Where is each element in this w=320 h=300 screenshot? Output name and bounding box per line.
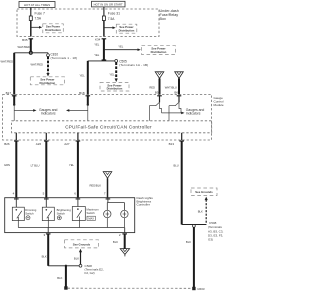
label Gauges and Indicators (left) bbox=[39, 108, 58, 116]
CPU/Fail-Safe Circuit/CAN Controller box bbox=[12, 121, 212, 133]
wire from HOT IN ON OR START to fuse 31 bbox=[103, 7, 105, 16]
svg-text:B26: B26 bbox=[4, 142, 10, 146]
ground point left bbox=[64, 286, 67, 289]
wire BLK to ground G503 bbox=[186, 227, 194, 288]
svg-text:WHT/RED: WHT/RED bbox=[1, 60, 14, 64]
wire YEL to gauge B18 bbox=[80, 61, 88, 95]
svg-text:YEL: YEL bbox=[69, 163, 75, 167]
svg-text:BLU: BLU bbox=[173, 163, 178, 167]
dash lights brightness controller box bbox=[5, 198, 135, 233]
wire BLK from pin 3 bbox=[42, 234, 49, 266]
node junction WHT/RED bbox=[14, 51, 48, 54]
right ground bus bbox=[182, 224, 207, 226]
pin B26 bbox=[4, 140, 18, 145]
svg-text:B35: B35 bbox=[22, 38, 28, 42]
fuse F31 bbox=[102, 12, 120, 21]
wire YEL from K34 down bbox=[94, 39, 104, 61]
svg-text:YEL: YEL bbox=[94, 53, 100, 57]
svg-text:G3): G3) bbox=[208, 238, 213, 242]
svg-text:B18: B18 bbox=[79, 91, 85, 95]
svg-text:WHT/BLU: WHT/BLU bbox=[165, 85, 177, 89]
terminal K34 bbox=[95, 38, 106, 42]
svg-text:Switch: Switch bbox=[25, 211, 34, 215]
pin B13 bbox=[169, 140, 184, 145]
svg-text:7.5A: 7.5A bbox=[35, 16, 42, 20]
See Power Distribution box (fuse 31) bbox=[116, 24, 137, 33]
See Power Distribution box (C810 branch) bbox=[30, 77, 64, 85]
svg-text:Indicators: Indicators bbox=[41, 112, 56, 116]
svg-text:GRN: GRN bbox=[4, 163, 10, 167]
wire fuse 7 to terminal B35 bbox=[30, 21, 32, 37]
arrow to See Power Distribution (fuse 31) bbox=[104, 26, 116, 29]
svg-text:See Grounds: See Grounds bbox=[73, 242, 91, 246]
power label HOT AT ALL TIMES bbox=[19, 2, 55, 8]
svg-text:(Terminals 1A - 1B): (Terminals 1A - 1B) bbox=[119, 63, 148, 67]
pin A27 bbox=[64, 140, 80, 145]
dashed arrow up to See Grounds (right) bbox=[198, 197, 208, 225]
svg-text:YEL: YEL bbox=[80, 73, 86, 77]
svg-text:A26: A26 bbox=[36, 142, 42, 146]
gauge control module outline bbox=[3, 95, 212, 140]
svg-text:WHT/RED: WHT/RED bbox=[17, 45, 30, 49]
wire BLK from pin 2 to ground bbox=[113, 234, 125, 249]
brightening switch SW2 bbox=[42, 198, 71, 221]
svg-text:K34: K34 bbox=[95, 38, 101, 42]
node junction YEL bbox=[88, 59, 115, 61]
left ground bus bbox=[48, 265, 80, 267]
label Under-dash Fuse/Relay Box bbox=[160, 9, 179, 21]
svg-text:YEL: YEL bbox=[94, 42, 100, 46]
wire WHT/RED from B35 to junction bbox=[17, 39, 30, 53]
svg-text:Box: Box bbox=[160, 17, 167, 21]
ground symbol (pin 2) bbox=[120, 249, 129, 257]
fuse F7 bbox=[29, 12, 45, 21]
maximum switch SW3 bbox=[72, 198, 99, 221]
svg-text:WHT/RED: WHT/RED bbox=[30, 62, 43, 66]
arrow to See Power Distribution (fuse 7) bbox=[31, 26, 42, 29]
pin 3 bbox=[44, 233, 51, 237]
svg-text:Switch: Switch bbox=[87, 211, 96, 215]
wire BLU (B13) bbox=[173, 141, 181, 225]
svg-text:HOT AT ALL TIMES: HOT AT ALL TIMES bbox=[24, 3, 50, 7]
transistor Q1 (B5 input) bbox=[149, 95, 161, 121]
svg-text:B17: B17 bbox=[6, 91, 12, 95]
wire YEL C505 to See Power Distribution arrow bbox=[109, 62, 117, 82]
pin 7 bbox=[104, 192, 106, 196]
pin B17 bbox=[6, 91, 17, 96]
svg-text:A27: A27 bbox=[64, 142, 70, 146]
wire LT BLU bbox=[31, 141, 47, 198]
internal ground bus bbox=[18, 218, 124, 233]
terminal forks at controller pins 4,5,6,7 bbox=[14, 198, 110, 199]
svg-text:See Grounds: See Grounds bbox=[195, 190, 213, 194]
See Grounds box (right) bbox=[191, 188, 217, 196]
See Power Distribution box (YEL branch) bbox=[142, 46, 176, 55]
svg-text:F2, G2): F2, G2) bbox=[85, 271, 95, 275]
svg-text:BLK: BLK bbox=[74, 257, 79, 261]
svg-text:4: 4 bbox=[13, 192, 15, 196]
svg-text:5: 5 bbox=[43, 192, 45, 196]
svg-text:G503: G503 bbox=[197, 287, 205, 291]
svg-text:7: 7 bbox=[104, 192, 106, 196]
svg-text:6: 6 bbox=[74, 192, 76, 196]
off-page triangle RED/BLK bbox=[89, 172, 111, 198]
svg-text:Switch: Switch bbox=[57, 211, 66, 215]
connector C508 (right) bbox=[193, 221, 224, 242]
pin 4 bbox=[13, 192, 15, 196]
svg-text:Controller: Controller bbox=[137, 203, 150, 207]
svg-text:Distribution: Distribution bbox=[45, 28, 61, 32]
svg-text:Fuse 31: Fuse 31 bbox=[108, 12, 120, 16]
wire stub B26 inside bbox=[15, 133, 17, 140]
terminal B35 bbox=[22, 38, 33, 42]
connector C810 bbox=[47, 52, 78, 60]
wire stub B13 inside bbox=[181, 133, 183, 140]
arrow to See Power Distribution (YEL branch) bbox=[104, 44, 141, 51]
svg-text:B5: B5 bbox=[155, 91, 159, 95]
dimming switch SW1 bbox=[12, 198, 36, 221]
arrow up to See Grounds (left) bbox=[74, 249, 82, 265]
svg-text:LT BLU: LT BLU bbox=[31, 164, 40, 168]
pin B18 bbox=[79, 91, 90, 96]
svg-text:RED: RED bbox=[149, 85, 155, 89]
transistor Q2 (B6 input) bbox=[169, 95, 181, 121]
wire YEL (A27) bbox=[69, 141, 78, 198]
svg-text:3: 3 bbox=[44, 233, 46, 237]
svg-text:HOT IN ON OR START: HOT IN ON OR START bbox=[94, 3, 123, 7]
svg-text:CPU/Fail-Safe Circuit/CAN Cont: CPU/Fail-Safe Circuit/CAN Controller bbox=[65, 125, 152, 130]
svg-text:B13: B13 bbox=[169, 142, 175, 146]
ground point G503 bbox=[192, 287, 205, 291]
arrow to Gauges and Indicators (right) bbox=[162, 112, 185, 115]
wire B18 inside module bbox=[87, 95, 89, 121]
label Gauges and Indicators (right) bbox=[186, 108, 205, 116]
wire B17 inside module bbox=[13, 95, 15, 121]
svg-text:Distribution: Distribution bbox=[151, 50, 167, 54]
off-page triangle WHT/BLU bbox=[165, 72, 184, 95]
wire stub A26 inside bbox=[45, 133, 47, 140]
See Power Distribution box (fuse 7) bbox=[43, 24, 64, 33]
svg-text:RED/BLK: RED/BLK bbox=[89, 184, 101, 188]
svg-text:2: 2 bbox=[119, 233, 121, 237]
wire WHT/RED to gauge B17 bbox=[1, 53, 15, 95]
svg-text:Indicators: Indicators bbox=[186, 112, 201, 116]
svg-text:7.5A: 7.5A bbox=[108, 17, 115, 21]
label Gauge Control Module bbox=[214, 96, 224, 107]
See Power Distribution box (C505 branch) bbox=[100, 83, 129, 92]
lamp L1 bbox=[104, 198, 125, 218]
svg-text:Distribution: Distribution bbox=[40, 81, 56, 85]
svg-text:BLK: BLK bbox=[198, 209, 203, 213]
svg-text:BLK: BLK bbox=[113, 240, 118, 244]
label Dash Lights Brightness Controller bbox=[137, 196, 154, 207]
svg-text:Distribution: Distribution bbox=[107, 87, 123, 91]
svg-text:MAX: MAX bbox=[88, 217, 94, 221]
pin B6 bbox=[174, 91, 181, 97]
See Grounds box (left) bbox=[65, 240, 99, 248]
ground link dashed bbox=[68, 287, 192, 289]
svg-text:BLK: BLK bbox=[186, 240, 191, 244]
connector C505 bbox=[115, 59, 149, 67]
svg-text:Fuse 7: Fuse 7 bbox=[35, 12, 45, 16]
svg-text:B6: B6 bbox=[174, 91, 178, 95]
pin 5 bbox=[43, 192, 45, 196]
svg-text:BLK: BLK bbox=[42, 254, 47, 258]
lamp L2 bbox=[121, 203, 128, 218]
wire fuse 31 to terminal K34 bbox=[103, 21, 105, 37]
connector C508 (left) bbox=[79, 264, 104, 275]
svg-text:Module: Module bbox=[214, 103, 224, 107]
pin 2 bbox=[119, 233, 127, 237]
wire from HOT AT ALL TIMES to fuse 7 bbox=[30, 8, 32, 17]
pin 6 bbox=[74, 192, 76, 196]
under-dash fuse/relay box outline bbox=[17, 9, 159, 37]
wire GRN bbox=[4, 141, 16, 198]
svg-text:Distribution: Distribution bbox=[119, 28, 135, 32]
svg-text:YEL: YEL bbox=[118, 44, 124, 48]
power label HOT IN ON OR START bbox=[92, 1, 126, 7]
wire BLK to ground G504 bbox=[57, 266, 66, 287]
wire WHT/RED C810 to See Power Distribution arrow bbox=[30, 57, 49, 77]
svg-text:YEL: YEL bbox=[109, 72, 115, 76]
svg-text:BLK: BLK bbox=[57, 276, 62, 280]
svg-text:(Terminals 1 - 18): (Terminals 1 - 18) bbox=[51, 56, 78, 60]
arrow from B18 wire to Gauges and Indicators bbox=[66, 109, 88, 112]
off-page triangle RED bbox=[149, 72, 163, 95]
pin A26 bbox=[36, 140, 49, 145]
pin B5 bbox=[155, 91, 162, 97]
arrow from B17 wire to Gauges and Indicators bbox=[14, 109, 36, 112]
wire stub A27 inside bbox=[77, 133, 79, 140]
